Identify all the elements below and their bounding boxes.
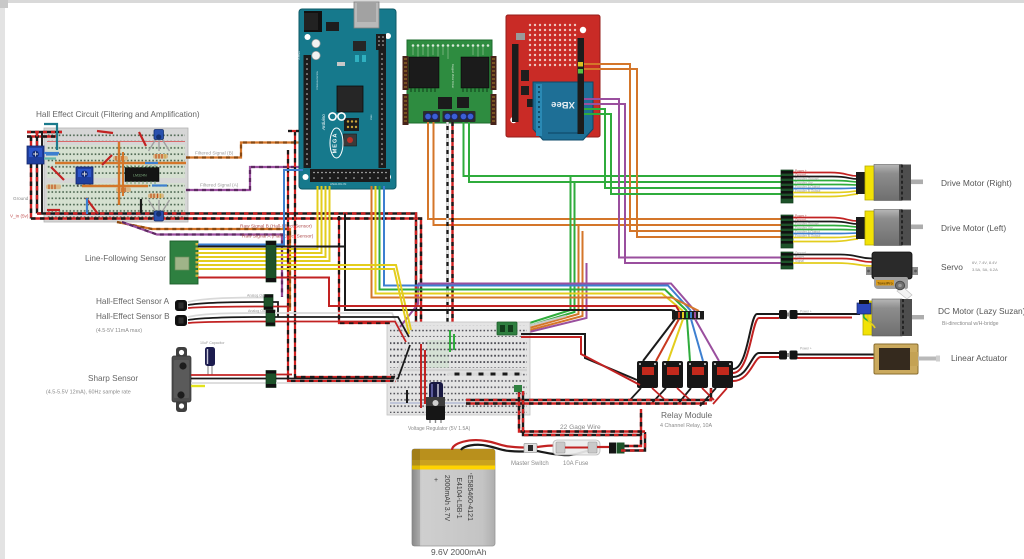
linear actuator wires — [798, 354, 875, 356]
hall sensor B — [175, 315, 187, 326]
svg-text:DC Motor (Lazy Suzan): DC Motor (Lazy Suzan) — [938, 306, 1024, 316]
resistor R5 — [153, 154, 168, 159]
battery wire red to switch — [452, 440, 524, 450]
terminal block on BB2 — [497, 322, 517, 335]
drive motor left — [856, 210, 923, 246]
right header — [379, 40, 387, 168]
screw terminal 2 — [443, 111, 460, 122]
mounting hole — [580, 27, 586, 33]
wire orange long row — [55, 162, 186, 164]
wire vin bus to center breadboard — [31, 219, 421, 338]
relay fan wire red — [656, 319, 679, 361]
svg-text:E4104-L5B-1: E4104-L5B-1 — [455, 477, 462, 518]
svg-text:+: + — [434, 477, 438, 484]
svg-text:Hall-Effect Sensor B: Hall-Effect Sensor B — [96, 312, 170, 321]
svg-text:E585460-4121: E585460-4121 — [466, 475, 473, 521]
MEGA label — [330, 128, 343, 158]
ICSP header — [344, 118, 359, 131]
sharp out wires to BB2 — [276, 374, 292, 376]
svg-text:Encoder B Output: Encoder B Output — [795, 189, 820, 193]
connector sharp — [266, 371, 276, 388]
wire black dashed bus inside BB2 — [448, 373, 523, 376]
svg-text:9.6V 2000mAh: 9.6V 2000mAh — [431, 547, 487, 557]
reset button — [516, 33, 525, 40]
wire red jumper c — [97, 131, 113, 133]
hbridge module 2 — [461, 57, 489, 88]
svg-text:3.5A, 5A, 6.2A: 3.5A, 5A, 6.2A — [972, 267, 998, 272]
resistor R3 — [116, 188, 131, 193]
right header pins — [491, 56, 497, 90]
svg-text:Filtered Signal (A): Filtered Signal (A) — [200, 183, 239, 189]
wire orange vertical mid2 — [122, 152, 124, 196]
line-following sensor board — [170, 241, 199, 284]
wire teal jumper top — [44, 124, 57, 150]
svg-text:10uF Capacitor: 10uF Capacitor — [200, 341, 225, 345]
motor shield board — [403, 40, 497, 125]
wire grey diagonal to center terminal — [517, 316, 566, 329]
servo wires — [793, 255, 872, 267]
wire yellow arduino D to bus 3 — [276, 186, 326, 257]
relay power from BB2 terminal black — [521, 334, 637, 380]
connector drive motor right — [781, 170, 793, 203]
small smd parts — [355, 55, 359, 62]
battery wire black to switch — [461, 445, 524, 452]
connector drive motor left — [781, 215, 793, 248]
svg-text:TowerPro: TowerPro — [877, 282, 892, 286]
svg-text:Analog Out: Analog Out — [248, 309, 266, 313]
relay fan wire purple — [695, 319, 719, 361]
header pin labels strip — [298, 51, 373, 186]
master switch SW1 — [524, 444, 537, 453]
wire red jumper a — [51, 167, 64, 180]
fuse F1 10A — [553, 440, 600, 455]
wire black striped from shield terminal2 to center breadboard — [446, 122, 448, 374]
capacitor white 2 — [312, 51, 320, 59]
breadboard BB1 — [44, 128, 188, 222]
relay connector strip — [672, 311, 704, 320]
wire blue from line sensor to arduino — [198, 170, 303, 245]
svg-text:XBee: XBee — [551, 99, 575, 110]
svg-text:MEGA: MEGA — [333, 133, 339, 154]
svg-text:Sharp Sensor: Sharp Sensor — [88, 374, 138, 383]
wire red jumpers inside BB2 — [420, 344, 422, 408]
wire green pair from xbee to Drive Motor Right — [584, 109, 781, 188]
hall sensor A — [175, 300, 187, 311]
power jack — [304, 11, 322, 32]
inline connectors linear actuator — [779, 351, 798, 360]
svg-text:Encoder B Output: Encoder B Output — [795, 234, 820, 238]
proto hole grid — [529, 24, 576, 66]
wire blue jumper c — [86, 198, 88, 214]
wire yellow line sensor 1 — [198, 248, 276, 250]
usb connector — [354, 2, 379, 28]
bottom header — [310, 169, 390, 182]
relay K2 — [662, 361, 683, 388]
svg-text:Hall Effect Circuit (Filtering: Hall Effect Circuit (Filtering and Ampli… — [36, 110, 200, 119]
hall B wires — [188, 313, 266, 323]
16u2 chip — [353, 41, 366, 51]
top pad row — [412, 44, 490, 47]
wire black solid left vertical — [41, 132, 43, 214]
wire dashed from connector up to relay bus — [625, 409, 642, 446]
sharp wires — [191, 374, 266, 376]
reset button — [344, 134, 357, 146]
mounting hole tl — [305, 34, 311, 40]
linear actuator — [874, 344, 940, 374]
motor right wires — [793, 173, 858, 197]
wire Raw Signal A (purple dashed from hall sensor A) — [122, 222, 282, 297]
wire red line sensor to BB2 — [198, 278, 679, 312]
svg-text:Raw Signal A (Hall-Effect Sens: Raw Signal A (Hall-Effect Sensor) — [242, 234, 314, 240]
hall A wires — [188, 298, 264, 309]
dc motor power wires — [798, 313, 861, 315]
svg-text:POWER: POWER — [298, 51, 301, 60]
wires switch to fuse — [537, 446, 554, 448]
svg-text:Analog Out: Analog Out — [247, 294, 265, 298]
hbridge module 1 — [409, 57, 439, 88]
svg-text:Drive Motor (Right): Drive Motor (Right) — [941, 178, 1012, 188]
capacitor 10uF — [205, 347, 215, 375]
arduino infinity logo — [329, 113, 345, 120]
relay right wires to linear actuator — [733, 353, 779, 377]
relay K1 — [637, 361, 658, 388]
wire yellow line sensor 2 — [198, 252, 276, 254]
relay K4 — [712, 361, 733, 388]
transistor Q1 — [149, 130, 170, 152]
wire green from RV1 — [44, 157, 56, 159]
wire yellow line sensor 5 to BB2 — [198, 265, 411, 330]
svg-text:PWM: PWM — [371, 114, 373, 120]
wire red power in (top left) — [27, 135, 56, 137]
wire orange pair from motor shield terminal1 to Drive Motor Left — [428, 122, 781, 219]
screw terminal 1 — [423, 111, 440, 122]
svg-text:6V, 7.4V, 8.4V: 6V, 7.4V, 8.4V — [972, 260, 997, 265]
wire red dashed into arduino left — [288, 130, 299, 132]
wire Filtered Signal A (purple dashed to Arduino) — [186, 167, 299, 190]
screenshot edge chrome left — [0, 0, 5, 559]
wire green taps down to center terminal — [517, 176, 571, 327]
wire black stub BB2 — [406, 390, 408, 403]
svg-text:Relay Module: Relay Module — [661, 410, 713, 420]
svg-text:Power +: Power + — [800, 310, 812, 314]
wires fuse to connector — [597, 446, 609, 448]
mounting hole bl — [303, 174, 309, 180]
right header — [578, 38, 585, 134]
wire blue jumper d — [145, 162, 158, 164]
mounting hole br — [385, 174, 391, 180]
wire yellow line sensor 4 — [198, 260, 276, 262]
wire red jumper e — [47, 209, 60, 211]
svg-text:4 Channel Relay, 10A: 4 Channel Relay, 10A — [660, 423, 712, 429]
wire black dashed left vertical — [36, 132, 38, 214]
xbee module — [533, 82, 593, 140]
wire green pair from shield terminal3 to Drive Motor Right — [464, 122, 782, 176]
motor left wire labels — [795, 214, 808, 222]
wire blue jumper b — [152, 184, 167, 186]
wire yellow arduino D to bus 2 — [276, 186, 322, 253]
svg-text:Line-Following Sensor: Line-Following Sensor — [85, 254, 166, 263]
svg-text:LM324N: LM324N — [133, 174, 147, 178]
svg-text:Hall-Effect Sensor A: Hall-Effect Sensor A — [96, 297, 170, 306]
wire black ground drop to relay connector — [345, 214, 675, 312]
wire yellow arduino D to bus 1 — [276, 186, 318, 249]
svg-text:Signal: Signal — [795, 259, 804, 263]
wire red dashed mid vertical 2 — [295, 131, 396, 377]
svg-text:Voltage Regulator (5V 1.5A): Voltage Regulator (5V 1.5A) — [408, 426, 471, 432]
trimpot RV2 — [76, 167, 93, 187]
wire yellow line sensor 3 — [198, 256, 276, 258]
connector line sensor — [266, 241, 276, 282]
hall A out wires — [273, 302, 278, 317]
connector hall A — [264, 295, 273, 310]
wire red jumper b — [86, 198, 98, 214]
smd caps — [521, 70, 529, 81]
trimpot RV1 — [27, 146, 44, 164]
top right pin header — [376, 34, 386, 50]
wire red jumper f — [102, 155, 112, 165]
svg-text:Bi-directional w/H-bridge: Bi-directional w/H-bridge — [942, 321, 999, 327]
breadboard BB2 — [387, 322, 530, 415]
wire blue from arduino bottom to relay connector — [384, 186, 691, 311]
transistor Q2 — [149, 200, 170, 221]
svg-text:2000mAh 3.7V: 2000mAh 3.7V — [443, 475, 450, 522]
wire red dashed mid vertical 1 — [288, 150, 396, 381]
wire blue jumper a — [46, 153, 58, 155]
connector servo — [781, 252, 793, 269]
svg-text:Power +: Power + — [800, 347, 812, 351]
battery pack — [412, 449, 495, 546]
relay right wires to DC motor — [733, 314, 779, 369]
wire yellow from arduino bottom to relay connector — [376, 186, 684, 311]
svg-text:(4.5-5.5V 12mA), 60Hz sample r: (4.5-5.5V 12mA), 60Hz sample rate — [46, 390, 131, 396]
voltage regulator VR1 — [426, 397, 445, 423]
dc motor — [857, 299, 924, 336]
ATmega2560 chip — [337, 86, 363, 112]
green stub at BB2 for battery feed — [514, 385, 522, 392]
connector hall B — [266, 310, 275, 326]
drive motor right — [856, 165, 923, 201]
svg-text:COMMUNICATION: COMMUNICATION — [316, 71, 319, 90]
wire yellow arduino D to bus 4 — [276, 186, 330, 261]
svg-text:Drive Motor (Left): Drive Motor (Left) — [941, 223, 1006, 233]
svg-text:Master Switch: Master Switch — [511, 461, 549, 467]
svg-text:Raw Signal B (Hall-Effect Sens: Raw Signal B (Hall-Effect Sensor) — [240, 224, 312, 230]
relay fan wire yellow — [668, 319, 683, 361]
capacitor C1 electrolytic — [429, 382, 443, 408]
svg-text:Ground: Ground — [13, 196, 29, 201]
wire purple tap down to center terminal — [517, 263, 587, 335]
wire purple pair from xbee to Servo — [584, 99, 781, 258]
wire purple to relay connector and BB2 — [418, 284, 695, 312]
relay bottom bus dashed — [466, 388, 711, 400]
op-amp IC LM324 — [125, 165, 159, 184]
svg-text:(4.5-5V 11mA max): (4.5-5V 11mA max) — [96, 328, 142, 334]
servo body — [866, 252, 918, 299]
relay fan wire green — [687, 319, 690, 361]
wire black line sensor row — [198, 246, 345, 248]
wire green from arduino bottom to relay connector — [380, 186, 688, 311]
wire red dashed vertical x330 — [339, 216, 390, 323]
wire red jumper d — [139, 132, 146, 146]
relay under loops red — [652, 388, 727, 404]
regulator component — [326, 22, 339, 31]
wire orange taps down to center terminal — [517, 225, 579, 332]
left header — [512, 44, 519, 122]
wire ground bus to center breadboard — [37, 214, 416, 333]
screw terminal 3 — [459, 111, 476, 122]
hall B out wires to BB2 — [275, 313, 403, 336]
wire yellow line sensor 6 to BB2 — [198, 269, 409, 334]
wire black jumper — [140, 199, 142, 213]
wire Raw Signal B (orange dashed from hall sensor B) — [117, 222, 290, 311]
mounting hole tr — [385, 33, 391, 39]
inline connectors dc motor — [779, 310, 798, 319]
sharp sensor body — [172, 347, 191, 412]
svg-text:Servo: Servo — [941, 262, 963, 272]
left header pins — [403, 56, 409, 90]
resistor R4 — [148, 194, 164, 199]
wire orange vertical mid — [118, 142, 120, 205]
svg-text:ANALOG IN: ANALOG IN — [330, 182, 346, 186]
connector battery feed — [609, 443, 625, 454]
motor left wires — [793, 218, 858, 242]
left header — [304, 55, 312, 168]
svg-text:Arduino: Arduino — [321, 114, 326, 131]
leds — [578, 62, 583, 67]
svg-text:22 Gage Wire: 22 Gage Wire — [560, 424, 601, 431]
wire black power in (top left) — [27, 131, 62, 133]
wire red dashed left vertical — [30, 137, 32, 219]
wire orange pair from xbee to Drive Motor Left — [584, 64, 781, 231]
wire blue from RV1 — [44, 152, 59, 154]
wire 22 gage dashed bus — [519, 388, 645, 432]
relay power from BB2 terminal red — [521, 337, 640, 385]
wire Filtered Signal B (orange dashed to Arduino) — [186, 143, 299, 158]
svg-text:10A Fuse: 10A Fuse — [563, 461, 589, 467]
screenshot edge chrome top — [0, 0, 1024, 3]
resistor R1 — [46, 185, 61, 190]
relay K3 — [687, 361, 708, 388]
svg-text:Rugged Motor Driver: Rugged Motor Driver — [451, 64, 455, 88]
relay fan wire blue — [691, 319, 703, 361]
wire red striped from shield terminal2 to center breadboard — [451, 122, 453, 370]
wire orange from arduino to relay connector — [372, 186, 700, 311]
xbee shield board — [506, 15, 600, 140]
capacitor white 1 — [312, 39, 320, 47]
motor right wire labels — [795, 169, 808, 177]
chip A — [438, 97, 452, 109]
svg-text:Filtered Signal (B): Filtered Signal (B) — [195, 151, 234, 157]
wire orange row2 — [82, 185, 148, 187]
chip B — [457, 97, 469, 108]
resistor R2 — [113, 156, 128, 161]
arduino mega U1 board — [298, 2, 396, 189]
svg-text:V_in (5v): V_in (5v) — [10, 214, 29, 219]
relay fan wire black — [643, 319, 675, 361]
svg-text:Linear Actuator: Linear Actuator — [951, 353, 1008, 363]
wire green stubs inside BB2 — [450, 330, 454, 352]
relay under loops black — [630, 388, 716, 406]
